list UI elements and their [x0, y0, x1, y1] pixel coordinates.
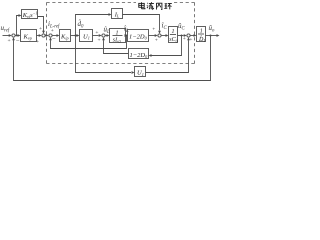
svg-text:+: + [39, 26, 42, 32]
svg-text:sL0: sL0 [113, 38, 122, 44]
arrow into 1-2D0 upper [125, 34, 128, 37]
svg-text:+: + [98, 37, 101, 43]
node uC junction dot [181, 35, 183, 37]
node uo junction dot [210, 35, 212, 37]
wire output feedback loop to S1 bottom [14, 36, 211, 81]
block U1 bottom box [135, 67, 146, 77]
svg-text:îC: îC [162, 22, 168, 32]
svg-text:−: − [16, 37, 20, 44]
arrow into S6 [184, 34, 187, 37]
arrow into IL box [109, 13, 112, 16]
arrow into U1 [77, 34, 80, 37]
svg-text:+: + [95, 30, 98, 36]
arrow into S4 from bottom [102, 37, 105, 40]
fraction block labels [113, 28, 206, 44]
block 1/D1 box [197, 27, 206, 42]
wire d0 down to U1 bottom box [76, 36, 132, 73]
svg-text:uref: uref [1, 24, 10, 34]
wire Kvi output down to S2 top [38, 17, 44, 32]
wire uC tap down to lower box [152, 36, 182, 56]
svg-text:1−2D0: 1−2D0 [130, 52, 149, 59]
summing junction S4 [102, 34, 105, 37]
arrow into S5 from top [158, 31, 161, 34]
arrow into S3 from bottom [49, 37, 52, 40]
arrow into 1/sL [107, 34, 110, 37]
arrow into S5 [155, 34, 158, 37]
svg-text:ûo: ûo [209, 24, 216, 34]
block 1/sC box [169, 27, 178, 43]
arrow into 1/sC [166, 34, 169, 37]
summing junction S6 [187, 34, 190, 37]
arrow into S2 from top [42, 31, 45, 34]
svg-text:ûL: ûL [104, 26, 111, 36]
arrow output right edge [217, 34, 220, 37]
wire S6 to 1/D1 [190, 35, 193, 37]
wire uC to S6 [178, 35, 184, 37]
arrow into S6 from bottom [187, 37, 190, 40]
arrow into S2 [39, 34, 42, 37]
svg-text:d̂0: d̂0 [78, 20, 85, 30]
wire iL [126, 35, 128, 37]
svg-text:+: + [183, 36, 186, 42]
wire iL feedback to S3 bottom [51, 36, 127, 49]
svg-text:Kvis−1: Kvis−1 [22, 11, 38, 19]
plus minus signs [8, 26, 193, 45]
svg-text:+: + [8, 38, 11, 44]
arrow into U1 bottom box [132, 71, 135, 74]
wire 1-2D0 to S5 [149, 35, 156, 37]
summing junction S3 [49, 34, 52, 37]
hanzi nei 内 [156, 3, 161, 9]
svg-text:+: + [152, 26, 155, 32]
wire Kip to U1 [71, 35, 77, 37]
block U1 box [80, 30, 93, 42]
block Kvi integrator box [22, 10, 38, 19]
svg-text:1−2D0: 1−2D0 [129, 33, 148, 40]
hanzi liu 流 [147, 2, 154, 9]
node riser tap dot [16, 35, 18, 37]
signal labels [1, 20, 216, 35]
hanzi dian 电 [139, 2, 145, 9]
svg-text:−: − [52, 36, 56, 43]
title 电流内环 drawn as strokes [139, 2, 172, 9]
svg-text:sC0: sC0 [169, 37, 178, 43]
dashed boundary of current inner loop [47, 3, 195, 64]
arrow into S1 [9, 34, 12, 37]
wire lower box out to S4 bottom [104, 40, 129, 53]
wire S1 to Kvp [15, 35, 19, 37]
arrow into Kvp [18, 34, 21, 37]
arrow into S1 from bottom [12, 37, 15, 40]
svg-text:D̂1: D̂1 [198, 36, 205, 43]
arrow into lower box leftward [149, 54, 152, 57]
svg-text:U1: U1 [83, 33, 90, 40]
wire top path d0 to IL box [76, 15, 109, 36]
arrow into S4 [99, 34, 102, 37]
block label texts [22, 11, 148, 77]
svg-text:U1: U1 [137, 70, 144, 77]
block IL top box [112, 9, 123, 19]
block 1-2D0 lower box [129, 49, 149, 59]
block Kip box [60, 30, 71, 42]
wire Kvp to S2 [37, 35, 40, 37]
wire S2 to S3 [45, 35, 46, 37]
svg-text:+: + [155, 38, 158, 44]
summing junction S5 [158, 34, 161, 37]
arrow into S3 [46, 34, 49, 37]
wire U1 to S4 [93, 35, 99, 37]
summing junction S1 [12, 34, 15, 37]
wire riser to Kvi [17, 16, 20, 36]
svg-text:Kip: Kip [60, 33, 69, 40]
wire input u_ref [3, 35, 11, 37]
wire U1 bottom box to S6 bottom [146, 40, 189, 72]
hanzi huan 环 [164, 4, 171, 10]
node iL junction dot [126, 35, 128, 37]
block 1-2D0 upper box [128, 30, 149, 42]
arrowheads [9, 13, 220, 74]
svg-text:+: + [36, 39, 39, 45]
svg-text:IL: IL [114, 11, 120, 18]
arrow into Kip [57, 34, 60, 37]
arrow into Kvi [19, 14, 22, 17]
wire output u_o [206, 35, 217, 37]
summing junction S2 [42, 34, 45, 37]
block Kvp box [21, 30, 37, 42]
svg-text:+: + [51, 28, 54, 34]
svg-text:+: + [189, 37, 192, 43]
wire S5 to 1/sC [161, 35, 165, 37]
svg-text:1: 1 [200, 28, 203, 34]
svg-text:1: 1 [172, 29, 175, 35]
wire S3 to Kip [52, 35, 56, 37]
block 1/sL box [110, 29, 126, 43]
node d0 junction dot [75, 35, 77, 37]
wire S4 to 1/sL [105, 35, 107, 37]
arrow into 1/D1 [194, 34, 197, 37]
svg-text:Kvp: Kvp [23, 33, 32, 40]
wire IL box to S5 top [123, 15, 160, 31]
svg-text:ûC: ûC [178, 22, 186, 32]
